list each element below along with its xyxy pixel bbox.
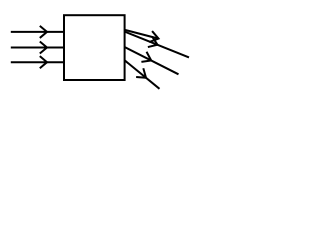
right output ray 4: wire: [125, 60, 160, 89]
right output ray 2: arrowhead: [148, 36, 158, 47]
right output ray 3: wire: [125, 47, 179, 74]
left input arrow 3: wire: [11, 61, 65, 63]
left input arrow 3: arrowhead: [40, 56, 47, 68]
left input arrow 2: wire: [11, 47, 65, 49]
left input arrow 1: wire: [11, 31, 65, 33]
left input arrow 2: arrowhead: [40, 41, 47, 53]
right output ray 1: wire: [125, 30, 159, 39]
box (rectangle): [64, 15, 125, 80]
left input arrow 1: arrowhead: [40, 26, 47, 38]
right output ray 4: arrowhead: [136, 68, 146, 78]
right output ray 3: arrowhead: [141, 52, 151, 62]
right output ray 1: arrowhead: [149, 31, 158, 42]
right output ray 2: wire: [125, 32, 189, 58]
